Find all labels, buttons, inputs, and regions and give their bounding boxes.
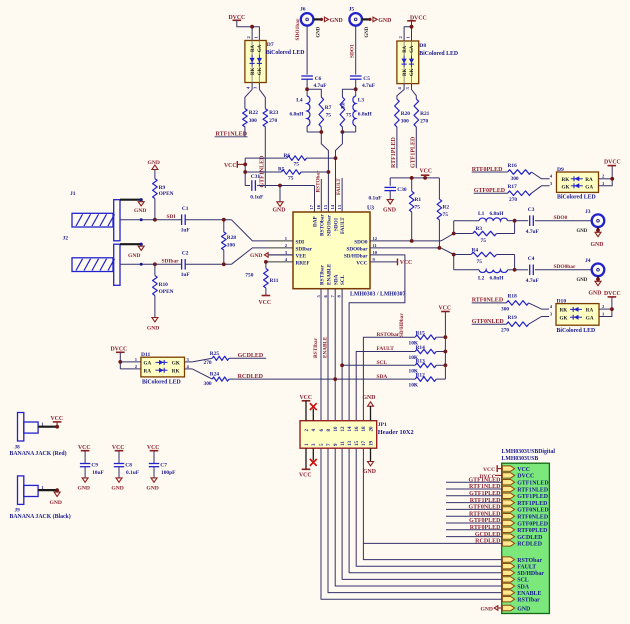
- resistor R10: [154, 264, 156, 275]
- svg-text:GTF0PLED: GTF0PLED: [469, 518, 501, 524]
- svg-text:VCC: VCC: [224, 163, 237, 169]
- gnd arrow J5: [368, 18, 371, 21]
- svg-text:10K: 10K: [409, 383, 419, 389]
- wire JP1 to USB SDA: [335, 448, 502, 586]
- wire U3 pin11 SDO0bar line: [370, 247, 441, 249]
- svg-text:100pF: 100pF: [161, 470, 176, 476]
- wire J3 shield: [597, 227, 599, 230]
- ground J3: [595, 232, 601, 236]
- wire to R8 branch: [342, 89, 355, 97]
- svg-text:1uF: 1uF: [181, 272, 191, 278]
- svg-text:16: 16: [355, 426, 360, 432]
- svg-text:R17: R17: [508, 184, 518, 190]
- svg-text:BiColored LED: BiColored LED: [419, 51, 458, 57]
- svg-text:RA: RA: [403, 45, 408, 52]
- no-connect X (JP1 pin3): [312, 448, 314, 460]
- resistor R4: [454, 254, 471, 256]
- resistor R20: [395, 99, 400, 127]
- svg-text:R20: R20: [401, 111, 411, 117]
- svg-text:RK: RK: [172, 368, 180, 374]
- svg-text:GND: GND: [589, 291, 602, 297]
- wire DVCC to D8 pins: [411, 21, 413, 41]
- svg-text:SCL: SCL: [517, 578, 529, 584]
- svg-text:4.7uF: 4.7uF: [526, 278, 540, 284]
- svg-text:BiColored LED: BiColored LED: [266, 50, 305, 56]
- svg-text:75: 75: [288, 175, 294, 181]
- svg-text:RTF1NLED: RTF1NLED: [469, 484, 501, 490]
- svg-text:R13: R13: [416, 359, 426, 365]
- svg-text:18: 18: [362, 426, 367, 432]
- svg-text:SDI: SDI: [167, 214, 176, 220]
- svg-text:RA: RA: [586, 308, 594, 314]
- svg-text:SDO0bar: SDO0bar: [554, 264, 576, 270]
- ground C8: [116, 478, 122, 482]
- wire to R7 branch: [307, 89, 321, 97]
- svg-text:GCDLED: GCDLED: [475, 532, 501, 538]
- svg-text:0.1uF: 0.1uF: [250, 195, 264, 201]
- wire DVCC to D11 pins: [119, 352, 121, 369]
- svg-text:GCDLED: GCDLED: [238, 353, 264, 359]
- capacitor C6: [301, 75, 313, 77]
- svg-text:20: 20: [369, 426, 374, 432]
- header JP1: [300, 421, 377, 449]
- svg-text:J3: J3: [585, 209, 591, 215]
- svg-text:C6: C6: [315, 76, 322, 82]
- svg-text:SDO0bar: SDO0bar: [346, 246, 368, 252]
- ground J4: [595, 281, 601, 285]
- svg-text:RTF0NLED: RTF0NLED: [517, 515, 548, 521]
- wire U3 pin8 SCL to JP1: [341, 289, 343, 421]
- svg-text:VCC: VCC: [400, 260, 413, 266]
- svg-text:D7: D7: [267, 42, 274, 48]
- capacitor C30: [389, 178, 391, 186]
- ground C30: [387, 200, 393, 204]
- svg-text:SCL: SCL: [340, 274, 346, 285]
- junction GND tap: [278, 184, 282, 188]
- svg-text:R2: R2: [443, 204, 450, 210]
- wire U3 pin5 RSTIbar to JP1: [320, 289, 322, 421]
- U3 pin 2 SDIbar: [268, 247, 294, 249]
- resistor R2: [438, 178, 440, 199]
- resistor R11: [264, 260, 268, 264]
- svg-text:R25: R25: [210, 351, 220, 357]
- resistor R5: [245, 171, 281, 173]
- wire R16 to D9 pin4: [531, 172, 549, 179]
- wire C2 to R28 node: [185, 263, 231, 265]
- svg-text:L2: L2: [478, 275, 485, 281]
- svg-text:OPEN: OPEN: [159, 191, 174, 197]
- inductor L1: [454, 220, 479, 222]
- svg-text:75: 75: [346, 112, 352, 118]
- resistor R3: [454, 233, 473, 235]
- net VCC at USB block: [497, 468, 502, 470]
- svg-text:SDI: SDI: [296, 239, 305, 245]
- svg-text:300: 300: [204, 381, 212, 387]
- wire L4/R7 bottom node: [306, 126, 308, 132]
- svg-text:SDO0: SDO0: [354, 239, 368, 245]
- svg-text:GTF1PLED: GTF1PLED: [469, 491, 501, 497]
- svg-text:VEE: VEE: [296, 253, 307, 259]
- wire R22 to net RTF1NLED: [244, 127, 246, 137]
- svg-text:GA: GA: [410, 45, 415, 53]
- svg-text:J5: J5: [349, 6, 355, 12]
- svg-text:300: 300: [501, 306, 509, 312]
- svg-text:100: 100: [227, 242, 235, 248]
- svg-text:R23: R23: [269, 110, 279, 116]
- wire U3 pin10 SD/HDbar route: [349, 255, 405, 421]
- svg-text:FAULT: FAULT: [517, 565, 536, 571]
- connector J9 banana jack black: [18, 476, 24, 505]
- net RSTObar stub at U3 pin16: [320, 179, 322, 212]
- wire D7 pin4 to R22: [245, 83, 252, 109]
- resistor R28: [223, 220, 225, 232]
- U3 pin 17 stub: [314, 206, 316, 213]
- svg-text:270: 270: [269, 118, 277, 124]
- power VCC (pullups): [441, 311, 450, 313]
- wire C6 to L4/R7 node: [306, 79, 308, 96]
- svg-text:R11: R11: [270, 278, 279, 284]
- resistor R21: [414, 99, 419, 127]
- svg-text:270: 270: [509, 197, 517, 203]
- svg-text:DAP: DAP: [313, 216, 319, 227]
- svg-text:RK: RK: [562, 177, 570, 183]
- wire J2 shield pin: [120, 243, 141, 245]
- U3 pin 4 RREF: [268, 261, 294, 263]
- svg-text:GND: GND: [273, 208, 286, 214]
- svg-text:ENABLE: ENABLE: [323, 336, 329, 358]
- svg-text:U3: U3: [367, 206, 374, 212]
- svg-text:SDO0: SDO0: [554, 215, 568, 221]
- svg-text:R18: R18: [508, 294, 518, 300]
- wire D11 pin4 to R24: [185, 368, 193, 370]
- svg-text:R7: R7: [325, 105, 332, 111]
- svg-text:GND: GND: [250, 253, 262, 259]
- svg-text:GK: GK: [560, 315, 568, 321]
- svg-text:GND: GND: [148, 160, 160, 166]
- svg-text:RTF0NLED: RTF0NLED: [469, 511, 501, 517]
- resistor R7: [319, 97, 324, 127]
- svg-text:J4: J4: [585, 258, 591, 264]
- svg-text:C7: C7: [160, 463, 167, 469]
- svg-text:300: 300: [511, 176, 519, 182]
- nets LED at USB block: [446, 481, 502, 483]
- svg-text:SD/HDbar: SD/HDbar: [517, 571, 544, 577]
- USB block pin tabs and names: [502, 466, 514, 471]
- svg-text:4.7uF: 4.7uF: [526, 229, 540, 235]
- wire VCC bus: [244, 158, 246, 185]
- svg-text:15: 15: [355, 441, 360, 447]
- power DVCC (D10): [608, 296, 617, 298]
- wire L1/R3 right node: [514, 221, 516, 234]
- power VCC (output term): [390, 177, 439, 179]
- wire node to U3 pin 14: [336, 132, 343, 212]
- svg-text:SDA: SDA: [334, 274, 340, 285]
- svg-text:SDA: SDA: [517, 584, 530, 590]
- bicolor LED D11: [141, 357, 185, 377]
- svg-text:VCC: VCC: [483, 467, 495, 473]
- module U4 LMH0303USB: [502, 463, 550, 613]
- svg-text:RSTObar: RSTObar: [319, 213, 325, 236]
- svg-text:BiColored LED: BiColored LED: [557, 195, 596, 201]
- resistor R17: [508, 191, 532, 196]
- svg-text:C8: C8: [125, 463, 132, 469]
- ground at USB block: [498, 607, 503, 609]
- wire C31 line to U3 pin17: [314, 186, 316, 213]
- wire DVCC to D7 pins: [237, 20, 260, 40]
- svg-text:270: 270: [204, 360, 212, 366]
- svg-text:GND: GND: [111, 486, 123, 492]
- resistor R12: [415, 377, 436, 382]
- svg-text:270: 270: [501, 328, 509, 334]
- U3 pin 3 VEE: [268, 254, 294, 256]
- svg-text:DVCC: DVCC: [517, 474, 534, 480]
- wire JP1 to USB SCL: [342, 448, 502, 579]
- svg-text:GND: GND: [481, 606, 493, 612]
- ground (JP1 pin19): [370, 448, 372, 461]
- svg-text:13: 13: [348, 441, 353, 447]
- svg-text:RSTIbar: RSTIbar: [320, 264, 326, 285]
- svg-text:GND: GND: [146, 486, 158, 492]
- svg-text:75: 75: [477, 259, 483, 265]
- svg-text:GA: GA: [586, 315, 594, 321]
- svg-text:19: 19: [369, 441, 374, 447]
- net DVCC at USB block: [495, 474, 502, 476]
- ground J1: [138, 202, 144, 206]
- svg-text:RSTObar: RSTObar: [315, 170, 321, 193]
- svg-text:VCC: VCC: [259, 300, 272, 306]
- capacitor C2: [181, 259, 183, 270]
- svg-text:R5: R5: [278, 167, 285, 173]
- svg-text:0.1uF: 0.1uF: [126, 470, 140, 476]
- wire D10 pins 2,1 to DVCC: [599, 308, 612, 310]
- svg-text:R1: R1: [415, 197, 422, 203]
- wire R18 to D10 pin4: [529, 303, 550, 309]
- resistor R24: [212, 377, 229, 381]
- wire JP1 to USB SD/HDbar: [349, 448, 502, 573]
- svg-text:C5: C5: [363, 76, 370, 82]
- svg-text:RA: RA: [585, 177, 593, 183]
- svg-text:VCC: VCC: [517, 467, 530, 473]
- wire U3 pin12 SDO0 line: [370, 240, 441, 242]
- svg-text:VCC: VCC: [439, 305, 452, 311]
- junction L1/R3 left node: [452, 232, 456, 236]
- svg-text:6.8nH: 6.8nH: [490, 211, 505, 217]
- svg-text:17: 17: [362, 441, 367, 447]
- ground R10: [152, 318, 158, 322]
- svg-text:R16: R16: [508, 163, 518, 169]
- svg-text:GND: GND: [134, 208, 146, 214]
- svg-text:750: 750: [245, 272, 253, 278]
- net GCDLED: [229, 357, 266, 359]
- svg-text:GND: GND: [577, 229, 588, 234]
- svg-text:VCC: VCC: [299, 472, 312, 478]
- svg-text:VCC: VCC: [356, 260, 367, 266]
- svg-text:RK: RK: [251, 68, 256, 75]
- svg-text:C4: C4: [528, 256, 535, 262]
- svg-text:R9: R9: [159, 185, 166, 191]
- svg-text:RCDLED: RCDLED: [238, 374, 264, 380]
- power DVCC (D9): [608, 165, 617, 167]
- svg-text:RREF: RREF: [296, 260, 310, 266]
- svg-text:270: 270: [420, 118, 428, 124]
- wire JP1 to USB RSTObar: [363, 448, 501, 559]
- resistor R15: [415, 335, 436, 340]
- svg-text:D11: D11: [141, 352, 151, 358]
- svg-text:C30: C30: [397, 187, 407, 193]
- wire J2 signal - net SDIbar: [120, 263, 182, 265]
- svg-text:Header 10X2: Header 10X2: [378, 429, 414, 436]
- svg-text:LMH0303USBDigital: LMH0303USBDigital: [502, 449, 556, 455]
- wire R23 to net GTF1NLED: [264, 127, 266, 188]
- svg-text:R3: R3: [476, 226, 483, 232]
- svg-text:RTF0PLED: RTF0PLED: [517, 528, 547, 534]
- svg-text:GND: GND: [78, 486, 90, 492]
- junction R4/L2 left node: [452, 253, 456, 257]
- svg-text:17: 17: [309, 204, 314, 209]
- svg-text:GTF1NLED: GTF1NLED: [468, 477, 501, 483]
- wire D8 pin3 to R21: [412, 84, 417, 99]
- svg-text:RTF1NLED: RTF1NLED: [517, 487, 548, 493]
- svg-text:SDO1: SDO1: [349, 44, 355, 58]
- svg-text:J9: J9: [15, 508, 21, 514]
- junction R6/SDO1: [334, 156, 338, 160]
- wire R17 to D9 pin3: [531, 186, 549, 193]
- wire J4 shield: [597, 276, 599, 279]
- svg-text:GTF0NLED: GTF0NLED: [468, 505, 501, 511]
- svg-text:GND: GND: [591, 242, 604, 248]
- svg-text:10: 10: [373, 250, 378, 255]
- svg-text:DVCC: DVCC: [604, 291, 621, 297]
- svg-text:ENABLE: ENABLE: [327, 263, 333, 285]
- svg-text:RTF0PLED: RTF0PLED: [470, 525, 501, 531]
- svg-text:LMH0303USB: LMH0303USB: [502, 456, 539, 462]
- svg-text:SDIbar: SDIbar: [296, 246, 313, 252]
- svg-text:75: 75: [294, 162, 300, 168]
- svg-text:4.7uF: 4.7uF: [362, 83, 376, 89]
- wire R21 to net GTF1PLED: [415, 127, 417, 168]
- bicolor LED D7: [245, 41, 266, 83]
- svg-text:6.8nH: 6.8nH: [290, 111, 305, 117]
- wire R19 to D10 pin3: [529, 317, 550, 325]
- svg-text:RTF1PLED: RTF1PLED: [517, 501, 547, 507]
- wire node to U3 pin 15: [321, 132, 328, 212]
- svg-text:RSTObar: RSTObar: [517, 558, 542, 564]
- svg-text:BiColored LED: BiColored LED: [557, 328, 596, 334]
- gnd arrow J6: [320, 18, 323, 21]
- bicolor LED D9: [557, 172, 599, 192]
- svg-text:4.7uF: 4.7uF: [314, 83, 328, 89]
- svg-text:C2: C2: [182, 251, 189, 257]
- resistor R25: [212, 356, 229, 360]
- capacitor C31: [245, 185, 250, 187]
- svg-text:RA: RA: [251, 45, 256, 52]
- wire J5 shield to GND: [362, 18, 369, 20]
- net FAULT stub at U3 pin13: [341, 178, 343, 212]
- svg-text:75: 75: [481, 238, 487, 244]
- svg-text:R4: R4: [472, 247, 479, 253]
- svg-text:GK: GK: [562, 185, 570, 191]
- bicolor LED D8: [397, 41, 419, 84]
- svg-text:GK: GK: [258, 67, 263, 75]
- junction DVCC/D7: [250, 25, 254, 29]
- resistor R9: [154, 170, 156, 179]
- capacitor C1: [181, 214, 183, 225]
- wire J1 signal - net SDI: [120, 219, 182, 221]
- svg-text:GTF1NLED: GTF1NLED: [259, 155, 265, 188]
- svg-text:12: 12: [373, 236, 378, 241]
- resistor R23: [263, 109, 268, 127]
- svg-text:J6: J6: [300, 6, 306, 12]
- svg-text:RA: RA: [144, 368, 152, 374]
- wire JP1 to USB RSTIbar: [321, 448, 502, 599]
- svg-text:R10: R10: [159, 282, 169, 288]
- resistor R19: [506, 322, 528, 327]
- svg-text:J1: J1: [70, 191, 76, 197]
- wire J6 to C6 - net SDO1bar: [306, 26, 308, 75]
- wire U3 pin6 ENABLE to JP1: [327, 289, 329, 421]
- svg-text:6.8nH: 6.8nH: [490, 275, 505, 281]
- bicolor LED D10: [556, 304, 599, 326]
- svg-text:GND: GND: [365, 26, 370, 37]
- svg-text:GND: GND: [577, 278, 588, 283]
- svg-text:15: 15: [323, 204, 328, 209]
- svg-text:10uF: 10uF: [92, 470, 104, 476]
- svg-text:RTF1PLED: RTF1PLED: [391, 137, 397, 168]
- inductor L3: [353, 96, 356, 126]
- wire R20 to net RTF1PLED: [396, 127, 398, 168]
- svg-text:L1: L1: [478, 211, 485, 217]
- svg-text:SD/HDbar: SD/HDbar: [344, 253, 368, 259]
- svg-text:GND: GND: [383, 207, 396, 213]
- svg-text:D8: D8: [419, 43, 426, 49]
- ground C7: [151, 478, 157, 482]
- capacitor C4: [515, 269, 529, 271]
- svg-text:11: 11: [373, 243, 378, 248]
- wire SDO0 diagonal to L1/R3: [441, 221, 454, 241]
- resistor R16: [508, 170, 532, 175]
- svg-text:C3: C3: [528, 207, 535, 213]
- junction R1/SDO0: [410, 239, 414, 243]
- junction R5/SDO1bar: [327, 170, 331, 174]
- resistor R22: [243, 109, 248, 127]
- resistor R1: [411, 178, 413, 191]
- resistor R14: [415, 349, 436, 354]
- svg-text:0.1uF: 0.1uF: [369, 195, 383, 201]
- svg-text:14: 14: [330, 204, 335, 209]
- svg-text:10: 10: [334, 426, 339, 432]
- svg-text:VCC: VCC: [420, 168, 433, 174]
- svg-text:SDIbar: SDIbar: [162, 259, 180, 265]
- wire JP1 to USB ENABLE: [328, 448, 502, 592]
- power VCC (JP1 pin1): [305, 448, 307, 469]
- svg-text:6.8nH: 6.8nH: [358, 111, 373, 117]
- svg-text:75: 75: [443, 212, 449, 218]
- ground VEE pin3: [268, 254, 294, 256]
- svg-text:11: 11: [341, 441, 346, 446]
- svg-text:SDO1bar: SDO1bar: [295, 18, 301, 40]
- svg-text:J2: J2: [63, 236, 69, 242]
- svg-text:SDO1: SDO1: [334, 217, 340, 231]
- svg-text:GND: GND: [128, 253, 140, 259]
- svg-text:300: 300: [401, 118, 409, 124]
- svg-text:16: 16: [316, 204, 321, 209]
- no-connect X (JP1 pin4): [312, 409, 314, 421]
- svg-text:SDO1bar: SDO1bar: [326, 214, 332, 236]
- svg-text:GTF1NLED: GTF1NLED: [517, 481, 548, 487]
- svg-text:R21: R21: [420, 111, 430, 117]
- junction C6/L4/R7: [305, 87, 309, 91]
- svg-text:GND: GND: [517, 606, 530, 612]
